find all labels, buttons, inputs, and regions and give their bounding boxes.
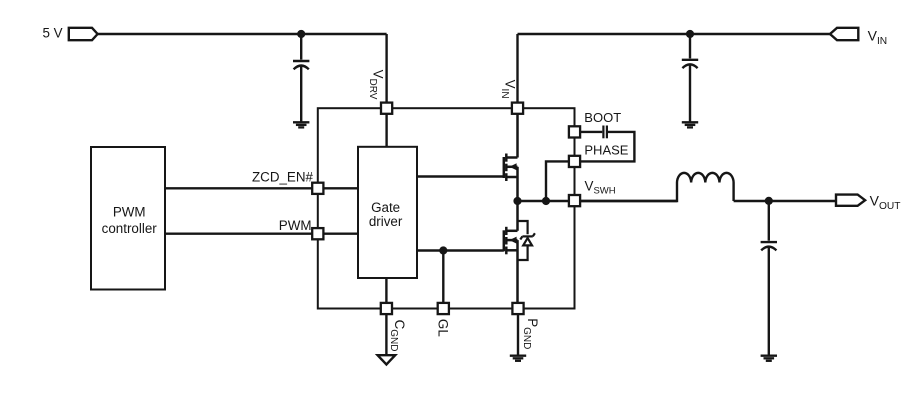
pin GL — [438, 303, 449, 314]
svg-text:Gate: Gate — [371, 200, 400, 215]
connector VOUT tag — [836, 195, 865, 206]
ground G4 PGND — [510, 356, 526, 361]
wire 5V to VDRV — [385, 34, 387, 147]
wire C1 top — [300, 34, 302, 60]
node junction VIN/C2 — [686, 30, 694, 38]
pin PHASE — [569, 156, 580, 167]
inductor L1 — [581, 173, 734, 201]
pin PGND — [512, 303, 523, 314]
node junction VOUT/C3 — [765, 197, 773, 205]
svg-text:PWM: PWM — [113, 205, 146, 220]
wire C2 top — [689, 34, 691, 58]
wire VIN rail — [518, 33, 831, 35]
wire GH gate drive — [417, 175, 504, 177]
svg-text:controller: controller — [102, 221, 158, 236]
svg-text:BOOT: BOOT — [584, 110, 621, 125]
pin PWM — [312, 228, 323, 239]
svg-text:PHASE: PHASE — [584, 143, 628, 158]
svg-text:5 V: 5 V — [43, 25, 63, 40]
wire gate driver bottom to CGND pin — [385, 278, 387, 302]
pin VIN — [512, 103, 523, 114]
wire switch node — [518, 200, 678, 202]
svg-text:PWM: PWM — [279, 218, 312, 233]
capacitor C4 bootstrap — [603, 126, 607, 139]
wire GL gate drive — [417, 249, 504, 251]
transistor Q2 low-side NFET — [504, 201, 518, 302]
box PWM controller — [91, 147, 165, 290]
diode D1 body diode — [518, 221, 535, 260]
capacitor C3 — [761, 242, 777, 250]
wire VIN rail to VIN pin — [516, 34, 518, 102]
wire PGND pin to ground — [517, 315, 519, 355]
wire C3 top — [768, 201, 770, 241]
connector VIN tag — [830, 28, 858, 40]
node junction 5V/C1 — [297, 30, 305, 38]
box gate driver — [358, 147, 417, 278]
svg-text:driver: driver — [369, 214, 403, 229]
ground G2 — [682, 122, 698, 127]
wire phase tap to PHASE pin — [546, 161, 575, 201]
wire GL junction to GL pin — [442, 251, 444, 303]
wire C2 to ground — [689, 64, 691, 121]
wire CGND pin to ground arrow — [385, 315, 387, 355]
pin ZCD_EN# — [312, 183, 323, 194]
ground G3 — [761, 356, 777, 361]
pin VSWH — [569, 195, 580, 206]
node junction phase tap — [542, 197, 550, 205]
svg-text:GL: GL — [435, 319, 450, 337]
wire BOOT pin to bootstrap cap — [575, 131, 603, 133]
wire C1 to ground — [300, 66, 302, 122]
node junction GL — [439, 246, 447, 254]
wire ZCD_EN# — [165, 187, 358, 189]
svg-text:ZCD_EN#: ZCD_EN# — [252, 170, 314, 185]
gate driver IC outer box — [318, 108, 575, 308]
node junction Q1 source — [513, 197, 521, 205]
pin BOOT — [569, 126, 580, 137]
pin VDRV — [381, 103, 392, 114]
pin CGND — [381, 303, 392, 314]
wire bootstrap cap to PHASE pin — [581, 132, 634, 162]
wire 5V rail — [98, 33, 387, 35]
transistor Q1 high-side NFET — [504, 115, 518, 202]
ground arrow CGND (open triangle) — [378, 355, 396, 364]
capacitor C1 — [293, 61, 309, 69]
capacitor C2 — [682, 60, 698, 68]
wire inductor to VOUT — [734, 200, 836, 202]
connector 5V tag — [69, 28, 98, 40]
ground G1 — [293, 122, 309, 127]
wire C3 to ground — [768, 247, 770, 355]
wire PWM — [165, 232, 358, 234]
